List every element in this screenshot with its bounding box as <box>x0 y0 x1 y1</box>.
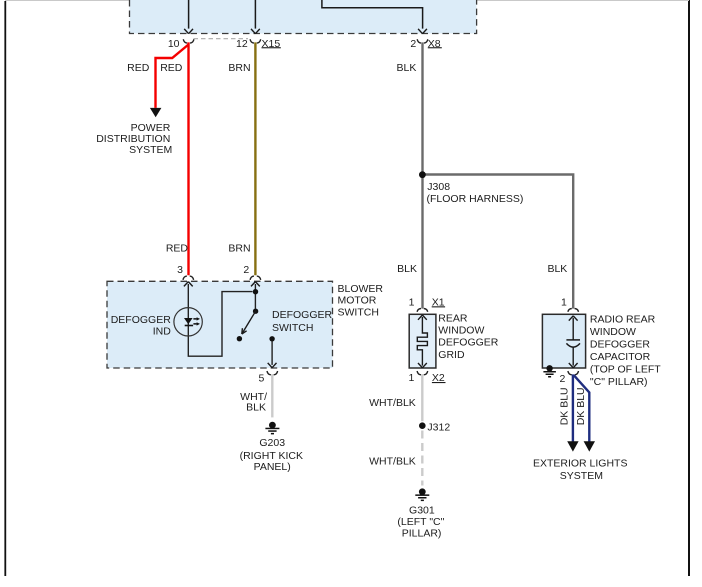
svg-text:J308: J308 <box>427 181 450 193</box>
svg-text:5: 5 <box>259 372 265 384</box>
svg-text:J312: J312 <box>427 422 450 434</box>
svg-text:10: 10 <box>168 38 180 50</box>
svg-text:DEFOGGER: DEFOGGER <box>272 309 333 321</box>
label REAR WINDOW DEFOGGER GRID <box>438 313 499 361</box>
label DEFOGGER SWITCH <box>272 309 333 334</box>
fuse block component (top, cut off) <box>130 0 477 34</box>
pin 1 (X1) <box>409 297 428 312</box>
off-page arrow left to exterior lights <box>567 441 578 451</box>
wire fuse block internal feed to pin 2 <box>322 0 423 29</box>
svg-text:3: 3 <box>177 264 183 276</box>
wire RED branch to power distribution <box>156 45 189 108</box>
wire DK BLU right <box>574 375 590 441</box>
wire fuse block internal feed to pin 10 <box>188 0 190 29</box>
junction J312 <box>419 422 450 434</box>
label WHT/ BLK <box>240 391 267 414</box>
svg-text:SYSTEM: SYSTEM <box>129 144 172 156</box>
wire RED main pin10 to pin3 <box>187 42 189 275</box>
defogger switch arm <box>242 311 256 334</box>
svg-text:SWITCH: SWITCH <box>272 322 313 334</box>
svg-text:1: 1 <box>561 297 567 309</box>
wire fuse block internal feed to pin 12 <box>254 0 256 29</box>
rear window defogger grid <box>409 314 436 368</box>
svg-text:(RIGHT KICK: (RIGHT KICK <box>240 450 303 462</box>
pin 2 <box>243 264 260 287</box>
svg-text:RED: RED <box>127 62 150 74</box>
wire BLK branch J308 to capacitor <box>423 175 574 309</box>
svg-text:BLOWER: BLOWER <box>338 283 384 295</box>
node EXTERIOR LIGHTS SYSTEM <box>533 457 628 482</box>
svg-text:1: 1 <box>409 297 415 309</box>
svg-text:GRID: GRID <box>438 349 465 361</box>
switch contact to pin 5 <box>269 336 274 341</box>
pin 5 <box>259 363 278 384</box>
off-page arrow to power distribution system <box>150 108 162 117</box>
svg-text:RED: RED <box>166 242 189 254</box>
svg-text:CAPACITOR: CAPACITOR <box>590 351 651 363</box>
label RADIO REAR WINDOW DEFOGGER CAPACITOR <box>590 313 661 388</box>
junction node (pin2 / LED) <box>253 289 258 294</box>
svg-text:RADIO REAR: RADIO REAR <box>590 313 656 325</box>
node POWER DISTRIBUTION SYSTEM <box>96 122 172 156</box>
pin 12 <box>236 29 261 50</box>
pin 1 (X2) <box>409 371 428 384</box>
radio rear window defogger capacitor <box>542 314 585 368</box>
right page border <box>688 0 690 576</box>
pin 3 <box>177 264 193 287</box>
svg-text:BLK: BLK <box>397 62 417 74</box>
svg-text:RED: RED <box>160 62 183 74</box>
pin 2 (capacitor) <box>560 371 579 385</box>
blower motor switch box <box>107 281 383 368</box>
svg-text:BLK: BLK <box>547 263 567 275</box>
connector X2 <box>432 372 446 384</box>
svg-text:G301: G301 <box>409 505 435 517</box>
svg-text:12: 12 <box>236 38 248 50</box>
svg-text:DEFOGGER: DEFOGGER <box>438 337 499 349</box>
svg-text:1: 1 <box>409 372 415 384</box>
svg-text:REAR: REAR <box>438 313 468 325</box>
ground G203 <box>240 422 303 474</box>
svg-text:2: 2 <box>243 264 249 276</box>
svg-text:DK BLU: DK BLU <box>575 387 587 425</box>
wire DK BLU left <box>572 374 574 441</box>
svg-text:2: 2 <box>410 38 416 50</box>
svg-text:DEFOGGER: DEFOGGER <box>111 314 172 326</box>
svg-text:(TOP OF LEFT: (TOP OF LEFT <box>590 363 661 375</box>
wire internal pin3 through LED to pin2 junction <box>188 284 252 356</box>
svg-text:(LEFT "C": (LEFT "C" <box>397 516 444 528</box>
left page border <box>4 1 6 576</box>
junction J308 <box>419 171 523 205</box>
ground G301 <box>397 488 444 539</box>
wire BRN pin12 to pin2 <box>254 42 256 275</box>
connector X1 <box>432 297 445 309</box>
svg-text:"C" PILLAR): "C" PILLAR) <box>590 376 648 388</box>
wire internal pin2 down to junction <box>254 284 256 309</box>
svg-text:EXTERIOR LIGHTS: EXTERIOR LIGHTS <box>533 457 628 469</box>
pin 1 (capacitor) <box>561 297 579 312</box>
svg-text:MOTOR: MOTOR <box>338 295 377 307</box>
svg-text:WINDOW: WINDOW <box>590 326 636 338</box>
svg-text:WHT/BLK: WHT/BLK <box>369 397 416 409</box>
connector X15 <box>194 38 281 50</box>
svg-text:G203: G203 <box>259 437 285 449</box>
wire WHT/BLK J312 to G301 (dashed) <box>421 431 423 486</box>
wire WHT/BLK X2 to J312 <box>421 374 423 421</box>
svg-text:IND: IND <box>153 326 172 338</box>
pin 2 (X8) <box>410 29 427 50</box>
off-page arrow right to exterior lights <box>584 441 595 451</box>
svg-text:BRN: BRN <box>228 62 250 74</box>
svg-text:DK BLU: DK BLU <box>559 387 571 425</box>
svg-text:BLK: BLK <box>397 263 417 275</box>
svg-text:SYSTEM: SYSTEM <box>560 470 603 482</box>
svg-text:WINDOW: WINDOW <box>438 325 484 337</box>
label DEFOGGER IND <box>111 314 172 338</box>
svg-text:2: 2 <box>560 373 566 385</box>
pin 10 <box>168 29 194 50</box>
svg-text:(FLOOR HARNESS): (FLOOR HARNESS) <box>427 193 524 205</box>
switch pivot node <box>253 309 258 314</box>
ground (capacitor case) <box>543 365 556 377</box>
svg-text:WHT/BLK: WHT/BLK <box>369 455 416 467</box>
connector X8 <box>428 38 442 50</box>
wire internal contact to pin 5 <box>271 341 273 365</box>
svg-text:BRN: BRN <box>228 242 250 254</box>
wire BLK from X8 to X1 <box>421 42 423 308</box>
switch contact (open side) <box>237 336 242 341</box>
svg-text:BLK: BLK <box>246 402 266 414</box>
svg-text:SWITCH: SWITCH <box>338 306 379 318</box>
LED defogger indicator lamp <box>174 308 202 336</box>
svg-text:PILLAR): PILLAR) <box>402 528 442 540</box>
svg-text:PANEL): PANEL) <box>254 461 291 473</box>
svg-text:DEFOGGER: DEFOGGER <box>590 338 651 350</box>
wire WHT/BLK pin5 to G203 <box>271 374 273 417</box>
